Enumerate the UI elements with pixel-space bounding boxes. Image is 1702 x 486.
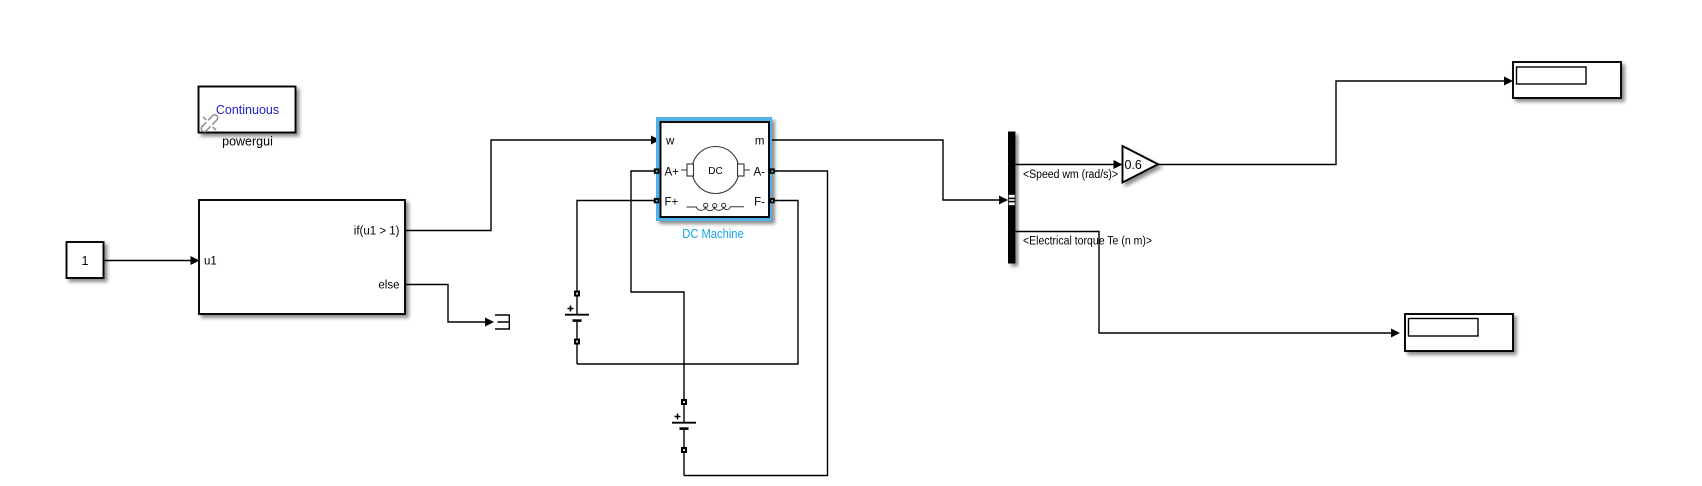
svg-text:powergui: powergui bbox=[222, 135, 273, 149]
svg-text:F+: F+ bbox=[665, 197, 679, 209]
svg-text:u1: u1 bbox=[204, 256, 217, 268]
svg-text:<Speed wm (rad/s)>: <Speed wm (rad/s)> bbox=[1023, 169, 1118, 181]
svg-text:m: m bbox=[755, 136, 765, 148]
svg-text:DC: DC bbox=[708, 166, 722, 177]
svg-text:0.6: 0.6 bbox=[1125, 158, 1142, 172]
svg-text:1: 1 bbox=[82, 254, 89, 268]
svg-text:A+: A+ bbox=[665, 167, 680, 179]
svg-text:w: w bbox=[665, 136, 675, 148]
svg-text:A-: A- bbox=[754, 167, 766, 179]
svg-text:if(u1 > 1): if(u1 > 1) bbox=[354, 226, 400, 238]
svg-text:Continuous: Continuous bbox=[216, 103, 279, 117]
svg-text:DC Machine: DC Machine bbox=[682, 227, 744, 241]
svg-text:F-: F- bbox=[754, 197, 765, 209]
svg-text:else: else bbox=[378, 280, 399, 292]
svg-text:<Electrical torque Te (n m)>: <Electrical torque Te (n m)> bbox=[1023, 236, 1152, 248]
